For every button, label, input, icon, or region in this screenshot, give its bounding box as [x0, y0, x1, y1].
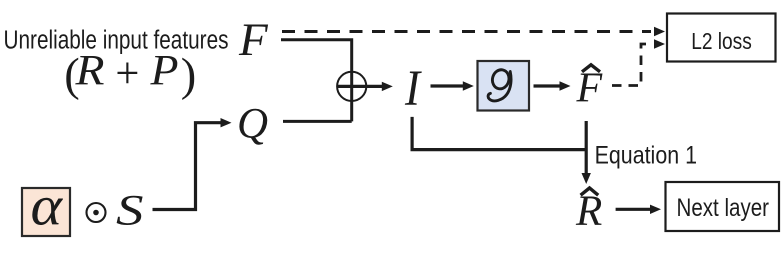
node R-hat [575, 188, 602, 235]
svg-text:Next layer: Next layer [677, 194, 770, 222]
block L2 loss [667, 14, 776, 62]
wire from alpha*S up and arrow into Q [153, 118, 232, 210]
svg-text:F: F [238, 14, 269, 66]
label: Equation 1 [595, 142, 697, 170]
wire arrow g to F-hat [534, 81, 571, 90]
svg-text:L2 loss: L2 loss [691, 28, 752, 54]
node S [116, 187, 144, 235]
svg-text:P: P [149, 48, 178, 95]
svg-text:R: R [74, 48, 104, 95]
wire dashed F to L2 loss [282, 27, 665, 36]
wire Q right to adder vertical [283, 120, 352, 123]
block g (function box) [478, 61, 530, 111]
svg-text:I: I [404, 61, 422, 117]
wire arrow R-hat to Next layer [616, 205, 661, 214]
svg-text:+: + [115, 49, 139, 98]
node (R + P) [64, 48, 196, 101]
wire adder output arrow to I [337, 82, 393, 91]
operator odot (element-wise product) [87, 203, 106, 222]
block alpha (scale box) [22, 176, 70, 238]
wire I down then right joining equation line [412, 117, 586, 150]
wire arrow I to g [431, 81, 474, 90]
block Next layer [666, 182, 780, 231]
svg-text:Q: Q [237, 101, 268, 148]
node Q [237, 101, 268, 148]
node F (input features) [238, 14, 269, 66]
svg-text:Equation 1: Equation 1 [595, 142, 697, 170]
wire dashed F-hat to L2 loss [612, 39, 665, 85]
label: Unreliable input features [4, 27, 229, 55]
wire F right then down to adder [281, 40, 352, 122]
svg-text:S: S [116, 187, 144, 235]
node I [404, 61, 422, 117]
svg-text:): ) [181, 50, 197, 101]
adder circled-plus [337, 72, 366, 101]
svg-text:α: α [31, 176, 64, 238]
node F-hat [576, 65, 603, 112]
wire F-hat down arrow to R-hat (Equation 1) [582, 121, 591, 184]
